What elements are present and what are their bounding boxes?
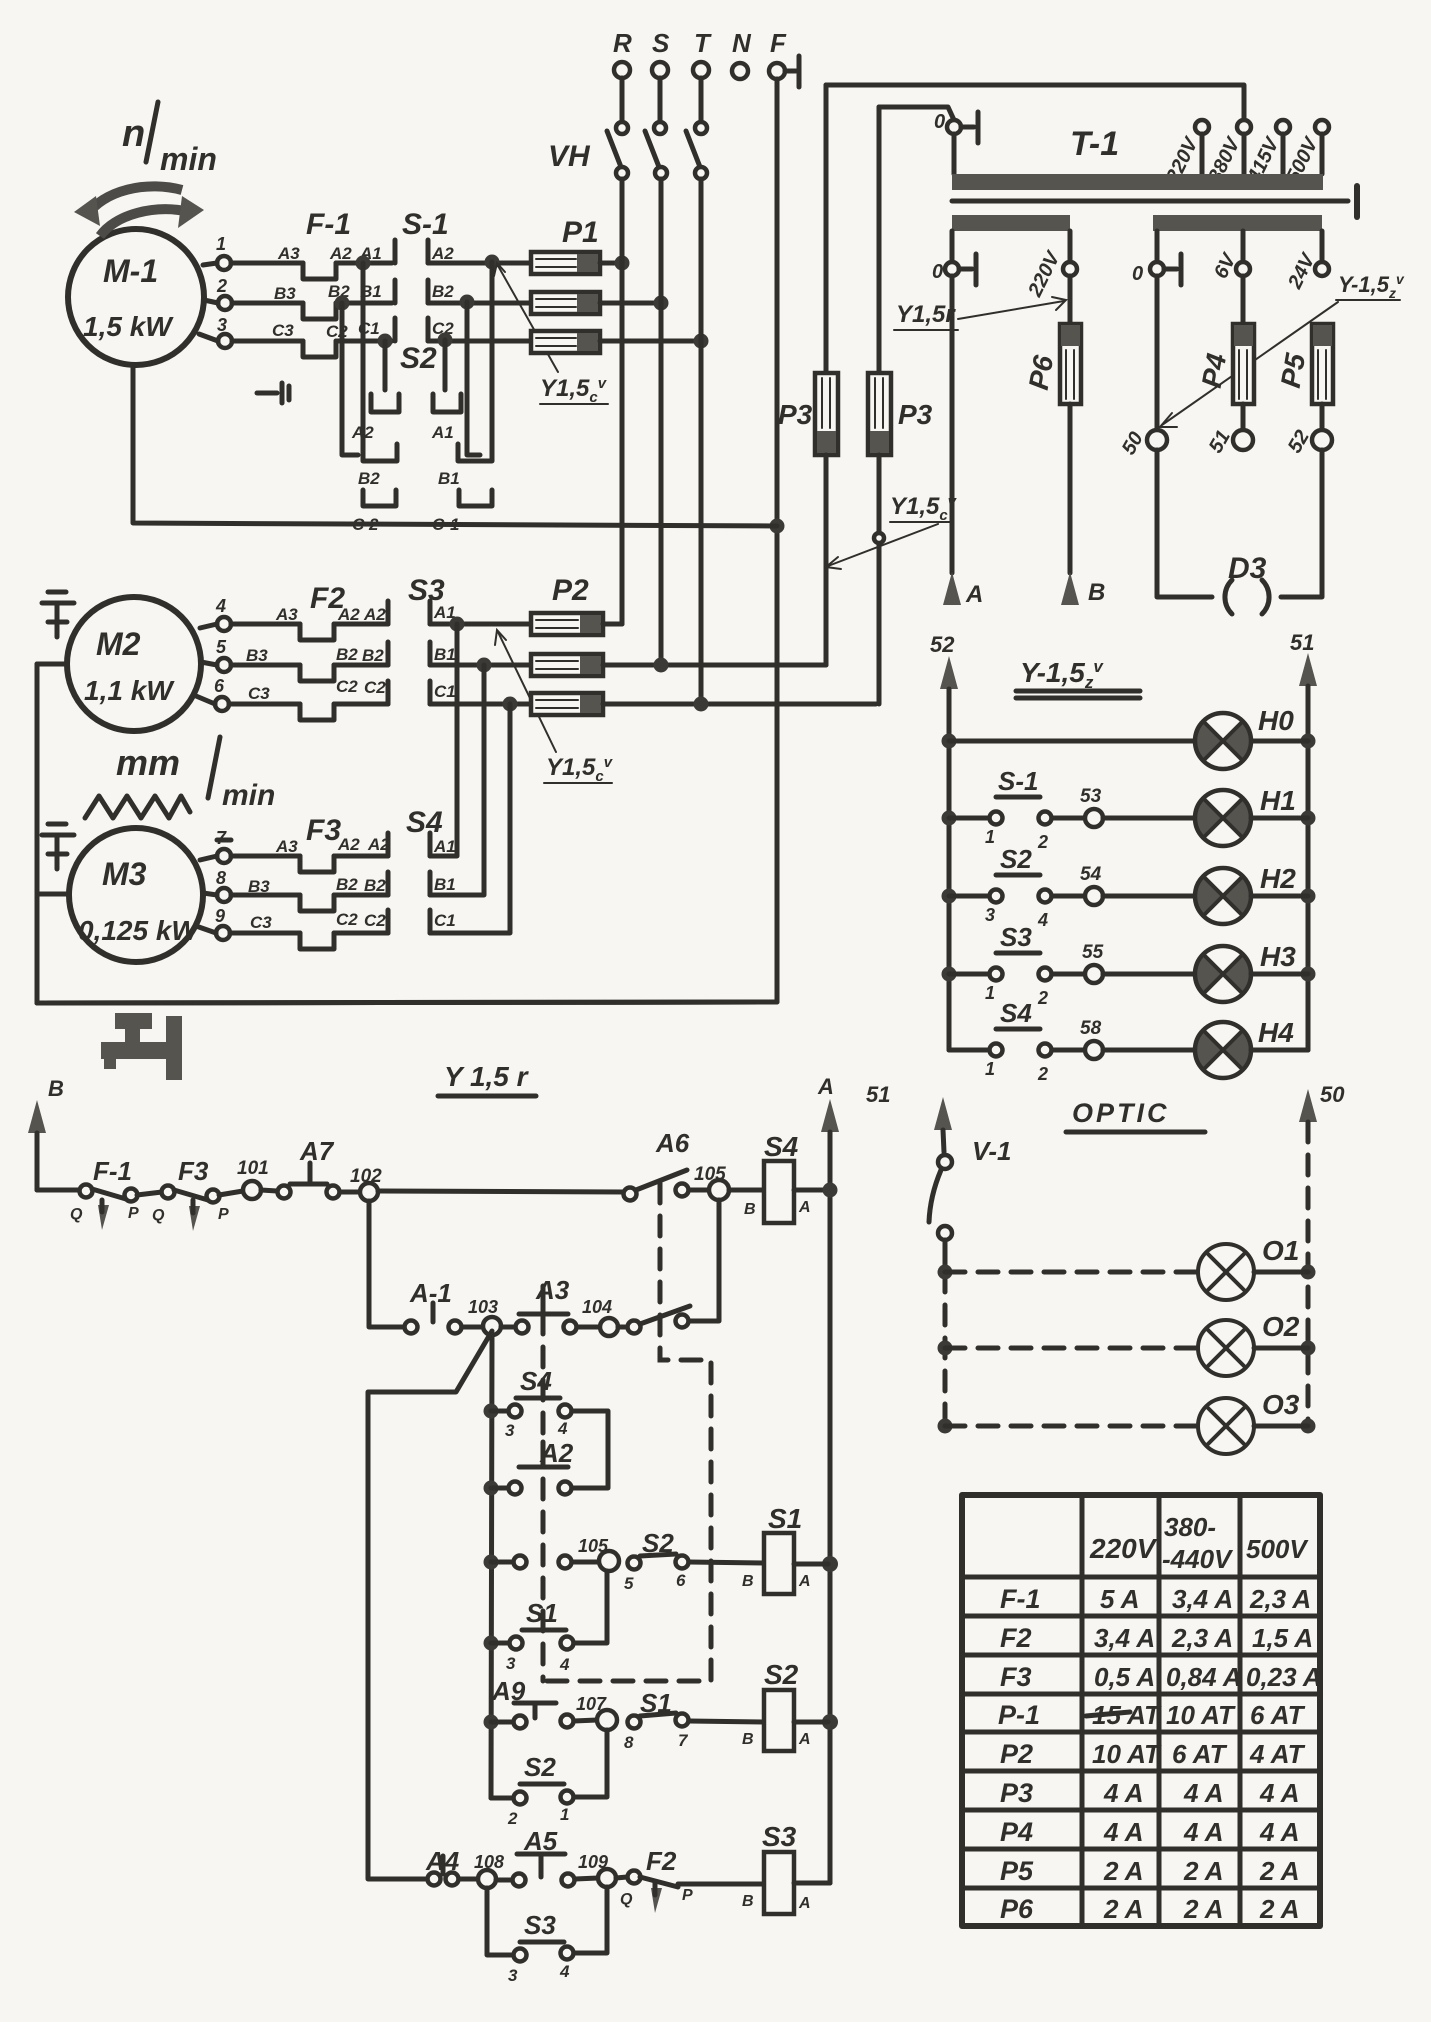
table row P5 <box>1000 1856 1300 1886</box>
wire to coil S2 <box>689 1721 764 1722</box>
svg-text:1: 1 <box>216 234 226 254</box>
svg-text:4 A: 4 A <box>1259 1778 1300 1808</box>
lamp H4 <box>1195 1017 1308 1078</box>
svg-text:S2: S2 <box>400 342 437 375</box>
svg-text:B3: B3 <box>246 646 268 665</box>
svg-text:4 A: 4 A <box>1103 1778 1144 1808</box>
wire 0 to A <box>950 276 955 573</box>
svg-text:B: B <box>1088 579 1105 606</box>
svg-text:F3: F3 <box>306 814 341 847</box>
svg-text:B1: B1 <box>438 469 460 488</box>
svg-text:2 A: 2 A <box>1183 1894 1224 1924</box>
node ladder S4 <box>484 1404 499 1419</box>
T1 secondary II 24V terminal <box>1284 231 1329 293</box>
switch V-1 <box>929 1136 1012 1272</box>
svg-text:10 AT: 10 AT <box>1166 1700 1236 1730</box>
connector 51 optic <box>866 1082 952 1152</box>
contactor S4 contacts <box>388 806 456 933</box>
svg-text:A-1: A-1 <box>409 1278 452 1308</box>
svg-text:P4: P4 <box>1196 351 1233 391</box>
node row2 x342 <box>335 296 350 311</box>
svg-text:Y1,5cv: Y1,5cv <box>890 493 958 524</box>
svg-text:7: 7 <box>678 1731 689 1750</box>
overload relay F1 <box>272 208 352 357</box>
wire M2 rows <box>196 624 300 704</box>
T1 primary tap 415V <box>1243 120 1290 187</box>
svg-text:A: A <box>798 1731 811 1748</box>
svg-text:4 A: 4 A <box>1259 1817 1300 1847</box>
svg-text:A2: A2 <box>337 835 360 854</box>
T1 primary winding <box>952 174 1323 190</box>
svg-text:F2: F2 <box>646 1846 677 1876</box>
T1 secondary winding I <box>952 215 1070 231</box>
svg-text:C3: C3 <box>272 321 294 340</box>
contactor S1 main contacts <box>358 208 454 341</box>
node T-P1 <box>694 334 709 349</box>
reversing switch S2 left column <box>342 263 437 534</box>
svg-text:103: 103 <box>468 1297 498 1317</box>
svg-text:2: 2 <box>1037 988 1048 1008</box>
thermal contact F1 <box>70 1156 139 1230</box>
terminal 105 <box>694 1164 729 1200</box>
svg-text:P2: P2 <box>1000 1739 1033 1769</box>
svg-text:B3: B3 <box>248 877 270 896</box>
svg-text:4 A: 4 A <box>1103 1817 1144 1847</box>
relay coil S2 <box>742 1659 828 1751</box>
svg-text:Y1,5cv: Y1,5cv <box>540 375 608 406</box>
lamp O2 <box>1198 1311 1300 1376</box>
relay coil S1 <box>742 1503 828 1594</box>
svg-text:3: 3 <box>985 905 995 925</box>
table row P2 <box>1000 1739 1306 1769</box>
fuse P2 phase B <box>531 654 603 676</box>
T1 secondary II 0 terminal <box>1132 231 1181 285</box>
wire P3a lower <box>824 455 829 665</box>
svg-text:2 A: 2 A <box>1103 1856 1144 1886</box>
connector A <box>943 572 983 608</box>
svg-text:53: 53 <box>1080 786 1102 807</box>
fuse P5 <box>1275 324 1333 404</box>
wire phase R vertical <box>620 179 625 624</box>
svg-text:S-1: S-1 <box>998 766 1038 796</box>
wire ladder rail <box>491 1335 492 1798</box>
wire P3a upper <box>824 85 829 373</box>
svg-text:A2: A2 <box>337 605 360 624</box>
mechanical linkage dashed A3-A2 <box>541 1314 546 1681</box>
table row F1 <box>1000 1584 1311 1614</box>
node row1 x492 <box>485 255 500 270</box>
svg-text:A3: A3 <box>535 1275 570 1305</box>
svg-text:P1: P1 <box>562 216 599 249</box>
svg-text:51: 51 <box>1290 630 1314 655</box>
svg-text:101: 101 <box>237 1158 269 1179</box>
wire to coil S3 <box>678 1882 764 1887</box>
svg-text:500V: 500V <box>1246 1534 1309 1564</box>
svg-text:F-1: F-1 <box>1000 1584 1041 1614</box>
node rail52 S2 <box>942 889 957 904</box>
svg-text:P5: P5 <box>1000 1856 1034 1886</box>
svg-text:P6: P6 <box>1000 1894 1034 1924</box>
svg-text:n: n <box>122 113 145 155</box>
node row1 x363 <box>356 256 371 271</box>
pushbutton A7 <box>261 1136 360 1199</box>
svg-text:0: 0 <box>932 261 943 283</box>
svg-text:S4: S4 <box>764 1131 799 1162</box>
svg-text:V-1: V-1 <box>972 1136 1012 1166</box>
svg-text:55: 55 <box>1082 942 1104 963</box>
M3 terminal 8 <box>216 868 231 902</box>
svg-text:1: 1 <box>560 1805 569 1824</box>
connector B <box>1061 572 1105 606</box>
connector 50 optic <box>1299 1082 1345 1426</box>
svg-text:O2: O2 <box>1262 1311 1300 1342</box>
svg-text:P3: P3 <box>898 399 933 430</box>
svg-text:4 A: 4 A <box>1183 1817 1224 1847</box>
svg-text:B: B <box>48 1076 64 1101</box>
node S3C x510 <box>503 697 518 712</box>
wire F1 to S1 contacts <box>336 263 392 341</box>
svg-text:52: 52 <box>930 632 955 657</box>
svg-text:58: 58 <box>1080 1018 1102 1039</box>
svg-text:F-1: F-1 <box>93 1156 132 1186</box>
wire H0 row <box>949 739 1308 744</box>
svg-text:P2: P2 <box>552 574 589 607</box>
svg-text:P3: P3 <box>1000 1778 1033 1808</box>
node rail51 H2 <box>1301 889 1316 904</box>
svg-text:S2: S2 <box>1000 844 1032 874</box>
svg-text:P: P <box>128 1205 139 1222</box>
switch S3 lamp row <box>949 922 1195 1008</box>
svg-text:6 AT: 6 AT <box>1250 1700 1306 1730</box>
svg-text:3: 3 <box>508 1966 518 1985</box>
wire O3 row dashed <box>945 1424 1308 1429</box>
svg-text:C2: C2 <box>336 677 358 696</box>
table row P4 <box>1000 1817 1300 1847</box>
table row F2 <box>1000 1623 1313 1653</box>
wire M1 phase A row <box>203 263 303 265</box>
svg-text:4 AT: 4 AT <box>1249 1739 1306 1769</box>
wire P3b lower <box>877 455 882 704</box>
svg-text:A: A <box>798 1199 811 1216</box>
wire 103 to A3 <box>501 1325 515 1330</box>
wire ladder row A9 <box>491 1720 513 1725</box>
pushbutton A9 <box>491 1676 556 1718</box>
M2 terminal 6 <box>214 676 229 711</box>
contact A4 <box>425 1846 478 1886</box>
svg-text:4: 4 <box>1037 910 1048 930</box>
wire phase S vertical <box>659 179 664 665</box>
T1 primary tap 220V <box>1162 120 1209 187</box>
node railA S1 <box>822 1556 838 1572</box>
wire F3-101 <box>219 1191 243 1195</box>
svg-text:P6: P6 <box>1023 353 1060 393</box>
svg-text:2: 2 <box>1037 1064 1048 1084</box>
svg-text:0,5 A: 0,5 A <box>1094 1662 1155 1692</box>
svg-text:S2: S2 <box>764 1659 799 1690</box>
terminal R <box>613 28 632 121</box>
wire P4 to 51 <box>1241 404 1246 430</box>
node rail50 O2 <box>1301 1341 1316 1356</box>
connector A control rail <box>817 1074 839 1883</box>
svg-text:F-1: F-1 <box>306 208 351 241</box>
contact A6 <box>624 1128 690 1201</box>
svg-text:A2: A2 <box>351 423 374 442</box>
svg-text:5 A: 5 A <box>1100 1584 1140 1614</box>
svg-text:5: 5 <box>624 1574 634 1593</box>
thermal contact F2 <box>616 1846 693 1913</box>
wire P3b upper <box>877 107 882 373</box>
svg-text:A3: A3 <box>277 244 300 263</box>
svg-text:S4: S4 <box>1000 998 1032 1028</box>
wire primary feed 0 tap <box>879 107 954 120</box>
node rail51 H0 <box>1301 734 1316 749</box>
svg-text:B2: B2 <box>358 469 380 488</box>
svg-text:3,4 A: 3,4 A <box>1094 1623 1155 1653</box>
fuse P1 phase A <box>531 216 600 274</box>
table row P1 <box>998 1700 1306 1730</box>
motor M3 <box>69 828 203 962</box>
T1 secondary winding II <box>1153 215 1322 231</box>
svg-text:H2: H2 <box>1260 863 1296 894</box>
wire 6V to P4 <box>1241 276 1246 324</box>
svg-text:A2: A2 <box>329 244 352 263</box>
node rail52 S3 <box>942 967 957 982</box>
wire M1 phase B row <box>204 300 303 303</box>
svg-text:A1: A1 <box>431 423 454 442</box>
node S3B x484 <box>477 658 492 673</box>
node ladder S1 <box>484 1636 499 1651</box>
svg-text:P: P <box>218 1206 229 1223</box>
wire S3 to fuses P2 <box>430 624 531 704</box>
svg-text:P: P <box>682 1887 693 1904</box>
svg-text:4: 4 <box>559 1655 570 1674</box>
wire M1 star point <box>133 365 777 526</box>
terminal 51 <box>1205 427 1253 457</box>
svg-text:O1: O1 <box>1262 1235 1299 1266</box>
T1 primary 0 terminal <box>934 111 978 174</box>
svg-text:3,4 A: 3,4 A <box>1172 1584 1233 1614</box>
fuse P1 phase C <box>531 331 600 353</box>
svg-text:R: R <box>613 28 632 58</box>
contact S2 aux NC <box>624 1528 689 1593</box>
svg-text:1,1 kW: 1,1 kW <box>84 675 175 706</box>
table header row <box>1089 1512 1309 1574</box>
svg-text:VH: VH <box>548 140 591 173</box>
lamp H3 <box>1195 941 1308 1002</box>
svg-text:2 A: 2 A <box>1259 1856 1300 1886</box>
terminal 108 <box>474 1852 504 1888</box>
M1 terminal 3 <box>217 315 232 348</box>
relay coil S4 <box>744 1131 811 1223</box>
fuse P2 phase A <box>531 574 603 635</box>
svg-text:C2: C2 <box>364 678 386 697</box>
wire M1 phase C row <box>199 334 303 341</box>
svg-text:C2: C2 <box>326 322 348 341</box>
annotation Y1,5c near S1 <box>494 263 608 406</box>
wire F1-F3 <box>137 1192 162 1195</box>
lamp O1 <box>1198 1235 1299 1300</box>
wire 220V to P6 <box>1068 276 1073 324</box>
wire 103 bypass to A4 row <box>368 1331 492 1879</box>
wire neutral F vertical <box>37 79 777 1003</box>
svg-text:50: 50 <box>1320 1082 1345 1107</box>
svg-text:A3: A3 <box>275 605 298 624</box>
node S-P2 <box>654 658 669 673</box>
connector B control <box>28 1076 64 1190</box>
terminal N <box>732 28 752 79</box>
svg-text:2 A: 2 A <box>1183 1856 1224 1886</box>
terminal 103 <box>468 1297 501 1335</box>
node R-P1 <box>615 256 630 271</box>
wire control row1 start <box>37 1188 80 1193</box>
svg-text:1,5 A: 1,5 A <box>1252 1623 1313 1653</box>
svg-text:4 A: 4 A <box>1183 1778 1224 1808</box>
svg-text:8: 8 <box>216 868 226 888</box>
fuse P1 phase B <box>531 292 600 314</box>
pushbutton A5 <box>496 1826 598 1887</box>
lamp D3 <box>1157 450 1322 614</box>
pushbutton A2 <box>491 1438 574 1495</box>
svg-text:A3: A3 <box>275 837 298 856</box>
label mm/min <box>116 737 275 812</box>
switch S2 lamp row <box>949 844 1195 930</box>
lamp panel title Y-1,5z <box>1016 657 1140 698</box>
T1 primary tap 500V <box>1282 120 1329 186</box>
svg-text:B: B <box>742 1731 754 1748</box>
svg-text:0,84 A: 0,84 A <box>1166 1662 1242 1692</box>
svg-text:8: 8 <box>624 1733 634 1752</box>
svg-text:P3: P3 <box>778 399 813 430</box>
table row F3 <box>1000 1662 1322 1692</box>
svg-text:C1: C1 <box>434 911 456 930</box>
svg-text:S1: S1 <box>768 1503 802 1534</box>
annotation Y1,5c near S3 <box>495 630 614 785</box>
svg-text:min: min <box>160 141 217 177</box>
svg-text:3: 3 <box>506 1654 516 1673</box>
svg-text:T-1: T-1 <box>1070 125 1119 163</box>
svg-text:C3: C3 <box>248 684 270 703</box>
wire F2 to S3 <box>334 624 388 704</box>
node F-M1common <box>770 519 785 534</box>
svg-text:S3: S3 <box>762 1821 797 1852</box>
wire O2 row dashed <box>945 1346 1308 1351</box>
control title Y1,5r <box>438 1061 536 1096</box>
mechanical linkage dashed A6 <box>543 1183 711 1681</box>
svg-text:A: A <box>965 581 983 608</box>
svg-text:3: 3 <box>217 315 227 335</box>
svg-text:1: 1 <box>985 983 995 1003</box>
relay coil S3 <box>742 1821 830 1914</box>
svg-text:0,23 A: 0,23 A <box>1246 1662 1322 1692</box>
svg-text:B2: B2 <box>364 876 386 895</box>
wire O1 row dashed <box>945 1270 1308 1275</box>
overload relay F2 <box>246 582 386 720</box>
svg-text:6: 6 <box>676 1571 686 1590</box>
svg-text:S4: S4 <box>520 1366 552 1396</box>
wire S4 risers to P2 rows <box>430 624 510 933</box>
svg-text:B2: B2 <box>362 646 384 665</box>
svg-text:104: 104 <box>582 1297 612 1317</box>
svg-text:2 A: 2 A <box>1103 1894 1144 1924</box>
svg-text:min: min <box>222 779 275 812</box>
svg-text:2: 2 <box>507 1809 518 1828</box>
svg-text:A1: A1 <box>433 837 456 856</box>
wire phase T vertical <box>699 179 704 704</box>
M1 terminal 2 <box>216 276 232 310</box>
svg-text:5: 5 <box>216 637 227 657</box>
lamp H2 <box>1195 863 1308 924</box>
main switch VH <box>548 122 707 179</box>
node rail51 H3 <box>1301 967 1316 982</box>
wire M3 rows <box>196 856 300 933</box>
svg-text:S: S <box>652 28 670 58</box>
svg-text:1: 1 <box>985 1059 995 1079</box>
svg-text:O3: O3 <box>1262 1389 1300 1420</box>
svg-text:B2: B2 <box>336 645 358 664</box>
svg-text:B3: B3 <box>274 284 296 303</box>
wire 102 to A6 <box>378 1191 624 1192</box>
node S-P1 <box>654 296 669 311</box>
wire ladder row 105 <box>491 1560 513 1565</box>
wire P1 to phase verticals <box>600 263 701 341</box>
M1 terminal 1 <box>216 234 231 270</box>
wire P2 outputs <box>603 624 876 704</box>
svg-text:C1: C1 <box>434 682 456 701</box>
fuse P4 <box>1196 324 1254 404</box>
contact A6b <box>618 1200 719 1334</box>
terminal 109 <box>578 1852 616 1887</box>
wire P6 to B <box>1068 404 1073 573</box>
svg-text:B2: B2 <box>432 282 454 301</box>
switch S4 lamp row <box>949 998 1195 1084</box>
wire 105 to coil S4 <box>729 1188 764 1193</box>
node S3A x457 <box>450 617 465 632</box>
node rail51 H1 <box>1301 811 1316 826</box>
svg-text:B1: B1 <box>434 645 456 664</box>
svg-text:2 A: 2 A <box>1259 1894 1300 1924</box>
node ladder A2 <box>484 1481 499 1496</box>
OPTIC title <box>1066 1098 1205 1132</box>
feed zigzag symbol <box>85 796 190 818</box>
terminal 101 <box>237 1158 269 1199</box>
svg-text:Q: Q <box>70 1206 83 1223</box>
contact A9 pair <box>514 1715 598 1729</box>
node row3 x385 <box>378 334 393 349</box>
svg-text:B1: B1 <box>434 875 456 894</box>
svg-text:B: B <box>742 1893 754 1910</box>
node rail52 H0 <box>942 734 957 749</box>
contact S4 aux <box>491 1366 608 1488</box>
svg-text:6 AT: 6 AT <box>1172 1739 1228 1769</box>
svg-text:4: 4 <box>557 1419 568 1438</box>
svg-text:Y1,5r: Y1,5r <box>896 301 956 328</box>
svg-text:A6: A6 <box>655 1128 690 1158</box>
table row P3 <box>1000 1778 1300 1808</box>
svg-text:2: 2 <box>1037 832 1048 852</box>
fuse P2 phase C <box>531 693 603 715</box>
fuse table frame <box>962 1495 1320 1926</box>
terminal 52 <box>1284 427 1332 457</box>
svg-text:A: A <box>798 1895 811 1912</box>
label n/min <box>122 102 217 177</box>
annotation Y1,5r near T1 <box>894 297 1066 330</box>
terminal 105b <box>578 1536 619 1571</box>
svg-text:OPTIC: OPTIC <box>1072 1098 1170 1128</box>
terminal 107 <box>576 1694 617 1730</box>
svg-text:F: F <box>770 28 787 58</box>
svg-text:T: T <box>694 28 712 58</box>
lamp O3 <box>1198 1389 1300 1454</box>
